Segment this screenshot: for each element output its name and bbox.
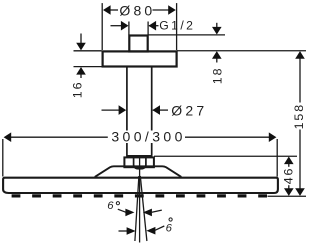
svg-text:18: 18	[210, 67, 224, 85]
svg-text:46: 46	[281, 167, 295, 185]
ceiling fitting G1/2 square	[129, 36, 147, 52]
spray line left	[135, 176, 139, 241]
dimension 46	[154, 156, 306, 196]
dimension 300/300	[3, 137, 277, 176]
spray angle lower arrows	[119, 226, 165, 231]
ceiling escutcheon plate	[103, 51, 177, 66]
connector nut	[124, 157, 153, 167]
dimension 158	[299, 58, 301, 188]
svg-text:300/300: 300/300	[111, 129, 185, 145]
svg-text:6: 6	[107, 200, 114, 212]
svg-text:6: 6	[166, 222, 173, 234]
cone base	[95, 166, 182, 177]
inner cup	[134, 158, 146, 169]
dimension 16	[74, 34, 102, 79]
pipe left wall	[126, 67, 128, 156]
dimension Ø27	[102, 109, 169, 111]
dimension 18	[148, 23, 306, 63]
pipe right wall	[151, 67, 153, 156]
svg-text:Ø27: Ø27	[171, 102, 207, 118]
inner cup dark bottom	[133, 166, 146, 169]
svg-text:158: 158	[292, 103, 306, 129]
dimension G1/2	[111, 22, 159, 35]
shower head slab	[3, 178, 278, 193]
spray line right	[140, 176, 147, 241]
svg-text:16: 16	[70, 81, 84, 99]
center line	[139, 158, 141, 243]
svg-text:G1/2: G1/2	[159, 18, 195, 32]
svg-text:Ø80: Ø80	[119, 3, 155, 19]
spray angle upper arrows	[118, 209, 162, 212]
nozzle dashes	[12, 194, 267, 197]
pipe end cap	[126, 155, 152, 157]
dimension Ø80	[102, 3, 176, 50]
